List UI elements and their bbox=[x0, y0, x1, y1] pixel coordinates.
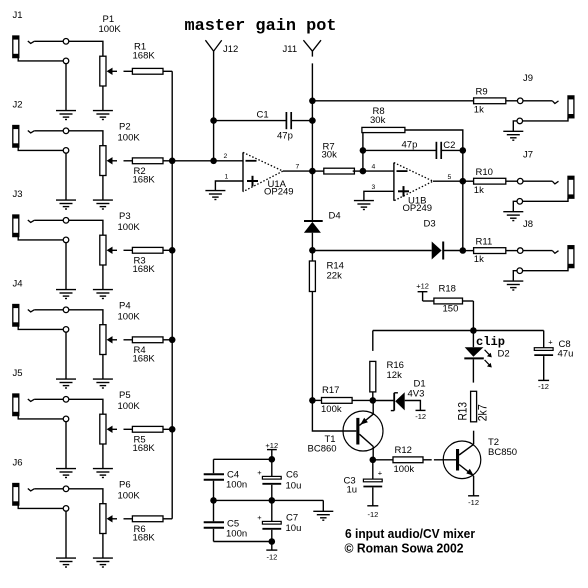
svg-text:100K: 100K bbox=[118, 133, 141, 144]
svg-text:7: 7 bbox=[296, 164, 300, 171]
svg-text:© Roman Sowa 2002: © Roman Sowa 2002 bbox=[345, 540, 464, 555]
junction bbox=[169, 337, 176, 344]
resistor R2 bbox=[124, 158, 173, 164]
junction bbox=[460, 147, 467, 154]
label J3 bbox=[13, 189, 23, 200]
wire to J9 bbox=[523, 101, 559, 104]
wire U1B +input to ground bbox=[364, 191, 394, 200]
svg-text:12k: 12k bbox=[387, 370, 403, 381]
diode D3 bbox=[432, 242, 463, 260]
wire J7 sleeve to ground bbox=[513, 201, 517, 211]
ground bbox=[503, 212, 523, 221]
svg-text:100n: 100n bbox=[226, 480, 247, 491]
contact circle J7 tip bbox=[517, 178, 523, 184]
connector J5 input jack bbox=[13, 394, 34, 416]
connector J3 input jack bbox=[13, 215, 34, 237]
svg-text:P4: P4 bbox=[119, 301, 131, 312]
power +12 bbox=[265, 441, 278, 459]
resistor R3 bbox=[124, 247, 173, 253]
junction bbox=[269, 497, 276, 504]
svg-text:+: + bbox=[257, 513, 262, 522]
caption line 2 bbox=[345, 540, 464, 555]
contact circle J1 sleeve bbox=[63, 58, 69, 64]
label C4 100n bbox=[226, 470, 247, 491]
svg-text:BC860: BC860 bbox=[308, 444, 337, 455]
svg-text:J11: J11 bbox=[283, 44, 298, 55]
wire node to R10 bbox=[463, 180, 474, 182]
label R4 168K bbox=[133, 345, 156, 365]
svg-text:+: + bbox=[378, 468, 383, 477]
contact circle J3 tip bbox=[63, 218, 69, 224]
label P1 100K bbox=[99, 14, 122, 35]
ground bbox=[93, 290, 113, 299]
svg-text:6 input audio/CV mixer: 6 input audio/CV mixer bbox=[345, 526, 475, 541]
pin 4 bbox=[372, 164, 376, 171]
diode D1 bbox=[373, 392, 421, 410]
svg-text:168K: 168K bbox=[133, 264, 156, 275]
wire J1 tip to P1 bbox=[34, 41, 103, 56]
svg-text:-12: -12 bbox=[468, 498, 479, 507]
label R7 30k bbox=[322, 142, 338, 161]
svg-text:J8: J8 bbox=[523, 219, 533, 230]
label J4 bbox=[13, 279, 23, 290]
svg-text:D2: D2 bbox=[498, 349, 510, 360]
ground bbox=[93, 379, 113, 388]
label J9 bbox=[523, 73, 533, 84]
label D1 4V3 bbox=[408, 379, 426, 400]
junction bbox=[470, 327, 477, 334]
label U1A OP249 bbox=[264, 179, 294, 197]
svg-text:J1: J1 bbox=[13, 10, 23, 21]
ground bbox=[56, 469, 76, 478]
resistor R12 bbox=[373, 457, 456, 463]
wire node to R11 bbox=[463, 250, 474, 252]
svg-text:+12: +12 bbox=[265, 441, 278, 450]
label R5 168K bbox=[133, 434, 156, 454]
svg-text:47p: 47p bbox=[277, 131, 293, 142]
contact circle J2 sleeve bbox=[63, 148, 69, 154]
label T2 BC850 bbox=[488, 437, 517, 458]
label J11 bbox=[283, 44, 298, 55]
label R3 168K bbox=[133, 255, 156, 275]
svg-text:clip: clip bbox=[476, 336, 505, 349]
junction bbox=[210, 117, 217, 124]
contact circle J7 sleeve bbox=[517, 199, 523, 205]
power -12 bbox=[538, 380, 549, 391]
wire U1A +input to ground bbox=[215, 181, 243, 190]
junction bbox=[309, 247, 316, 254]
wire U1A output bbox=[283, 170, 313, 172]
label R1 168K bbox=[133, 42, 156, 62]
label 47p C2 bbox=[402, 139, 456, 151]
svg-text:1k: 1k bbox=[474, 104, 484, 115]
potentiometer P1 bbox=[100, 56, 117, 86]
potentiometer P5 bbox=[100, 414, 117, 444]
wire P4 to ground bbox=[102, 355, 104, 380]
svg-text:168K: 168K bbox=[133, 443, 156, 454]
label P4 100K bbox=[118, 301, 141, 323]
wire mid rail bbox=[214, 500, 324, 511]
junction bbox=[309, 98, 316, 105]
junction bbox=[360, 147, 367, 154]
contact circle J4 tip bbox=[63, 307, 69, 313]
svg-text:1u: 1u bbox=[347, 485, 358, 496]
op-amp U1A bbox=[243, 152, 283, 191]
svg-text:master gain pot: master gain pot bbox=[185, 17, 337, 36]
svg-text:4V3: 4V3 bbox=[408, 389, 425, 400]
ground bbox=[503, 131, 523, 140]
svg-text:P3: P3 bbox=[119, 211, 131, 222]
contact circle J9 sleeve bbox=[517, 118, 523, 124]
diode D4 bbox=[304, 221, 323, 250]
wire J12 to U1A input node bbox=[213, 51, 215, 161]
capacitor C3 bbox=[363, 460, 382, 506]
wire R14 node to T1 base bbox=[312, 400, 356, 431]
label C1 47p bbox=[257, 110, 293, 142]
label C7 10u bbox=[286, 513, 302, 534]
resistor R8 bbox=[362, 127, 463, 150]
junction bbox=[309, 397, 316, 404]
svg-text:100K: 100K bbox=[99, 24, 122, 35]
wire clip net bbox=[373, 330, 544, 332]
svg-text:3: 3 bbox=[372, 184, 376, 191]
wire U1B output bbox=[433, 180, 463, 182]
connector J11 bbox=[303, 40, 321, 51]
svg-text:100n: 100n bbox=[226, 529, 247, 540]
potentiometer P2 bbox=[100, 146, 117, 176]
contact circle J6 sleeve bbox=[63, 506, 69, 512]
LED D2 bbox=[464, 331, 492, 383]
wire P3 to ground bbox=[102, 265, 104, 290]
ground bbox=[56, 379, 76, 388]
contact circle J2 tip bbox=[63, 128, 69, 134]
svg-text:-12: -12 bbox=[415, 412, 426, 421]
ground bbox=[313, 511, 333, 520]
ground bbox=[503, 281, 523, 290]
junction bbox=[269, 538, 276, 545]
connector J9 output jack bbox=[523, 96, 574, 121]
svg-text:-12: -12 bbox=[266, 552, 277, 561]
wire J1 sleeve to ground bbox=[18, 58, 66, 111]
resistor R10 bbox=[474, 178, 518, 184]
junction bbox=[169, 158, 176, 165]
connector J12 bbox=[205, 40, 221, 51]
svg-text:J9: J9 bbox=[523, 73, 533, 84]
connector J6 input jack bbox=[13, 484, 34, 506]
pin 1 bbox=[225, 173, 229, 180]
wire P1 to ground bbox=[102, 86, 104, 111]
wire P6 to ground bbox=[102, 534, 104, 559]
power -12 bbox=[367, 506, 378, 519]
ground bbox=[354, 201, 374, 210]
label R2 168K bbox=[133, 166, 156, 186]
ground bbox=[205, 191, 225, 200]
junction bbox=[360, 168, 367, 175]
resistor R9 bbox=[474, 98, 518, 104]
label R18 150 bbox=[439, 284, 459, 315]
svg-text:J4: J4 bbox=[13, 279, 23, 290]
svg-text:R13: R13 bbox=[456, 402, 470, 421]
svg-text:10u: 10u bbox=[286, 523, 302, 534]
svg-text:1k: 1k bbox=[474, 254, 484, 265]
contact circle J5 tip bbox=[63, 397, 69, 403]
capacitor C6 bbox=[257, 459, 281, 500]
wire J6 sleeve to ground bbox=[18, 505, 66, 558]
ground bbox=[93, 469, 113, 478]
connector J7 output jack bbox=[523, 176, 574, 201]
contact circle J1 tip bbox=[63, 39, 69, 45]
resistor R17 bbox=[312, 398, 372, 404]
svg-text:168K: 168K bbox=[133, 50, 156, 61]
ground bbox=[56, 558, 76, 567]
power -12 bbox=[468, 496, 479, 507]
pin 2 bbox=[224, 153, 228, 160]
wire J5 sleeve to ground bbox=[18, 416, 66, 469]
svg-text:100k: 100k bbox=[321, 404, 342, 415]
svg-text:R12: R12 bbox=[395, 445, 412, 456]
label R9 1k bbox=[474, 87, 488, 116]
wire summing bus bbox=[171, 71, 173, 519]
pin 5 bbox=[448, 174, 452, 181]
wire J8 sleeve to ground bbox=[513, 271, 517, 281]
contact circle J6 tip bbox=[63, 486, 69, 492]
resistor R11 bbox=[474, 248, 518, 254]
potentiometer P6 bbox=[100, 504, 117, 534]
svg-text:P6: P6 bbox=[119, 480, 131, 491]
label P6 100K bbox=[118, 480, 141, 502]
junction bbox=[370, 457, 377, 464]
svg-text:J12: J12 bbox=[223, 44, 238, 55]
label P2 100K bbox=[118, 122, 141, 144]
label R14 22k bbox=[327, 261, 344, 282]
svg-text:R9: R9 bbox=[476, 87, 488, 98]
pin 7 bbox=[296, 164, 300, 171]
connector J2 input jack bbox=[13, 126, 34, 148]
wire +12 rail bbox=[214, 459, 272, 473]
svg-text:100k: 100k bbox=[394, 464, 415, 475]
wire J4 sleeve to ground bbox=[18, 326, 66, 379]
junction bbox=[309, 117, 316, 124]
label J7 bbox=[523, 150, 533, 161]
label R6 168K bbox=[133, 524, 156, 544]
svg-text:1: 1 bbox=[225, 173, 229, 180]
resistor R1 bbox=[124, 68, 173, 74]
junction bbox=[269, 456, 276, 463]
svg-text:10u: 10u bbox=[286, 481, 302, 492]
ground bbox=[56, 290, 76, 299]
junction bbox=[210, 497, 217, 504]
label J2 bbox=[13, 100, 23, 111]
label C5 100n bbox=[226, 518, 247, 539]
resistor R16 bbox=[370, 331, 376, 401]
resistor R7 bbox=[312, 168, 363, 174]
wire J2 sleeve to ground bbox=[18, 147, 66, 200]
ground bbox=[56, 111, 76, 120]
capacitor C2 bbox=[363, 142, 463, 159]
svg-text:1k: 1k bbox=[474, 185, 484, 196]
label R13 2k7 bbox=[456, 402, 490, 422]
label J6 bbox=[13, 458, 23, 469]
wire J6 tip to P6 bbox=[34, 489, 103, 504]
svg-text:100K: 100K bbox=[118, 222, 141, 233]
contact circle J5 sleeve bbox=[63, 416, 69, 422]
resistor R5 bbox=[124, 426, 173, 432]
connector J1 input jack bbox=[13, 36, 34, 58]
label J5 bbox=[13, 368, 23, 379]
resistor R6 bbox=[124, 516, 173, 522]
label C3 1u bbox=[344, 476, 358, 496]
svg-text:+: + bbox=[257, 468, 262, 477]
svg-text:-12: -12 bbox=[367, 510, 378, 519]
label D2 bbox=[498, 349, 510, 360]
wire J9 sleeve to ground bbox=[513, 121, 517, 131]
label U1B OP249 bbox=[403, 196, 433, 214]
ground bbox=[93, 111, 113, 120]
label D3 bbox=[424, 219, 436, 230]
contact circle J4 sleeve bbox=[63, 327, 69, 333]
label C8 47u bbox=[558, 339, 574, 360]
potentiometer P4 bbox=[100, 325, 117, 355]
label R17 100k bbox=[321, 385, 342, 415]
ground bbox=[93, 558, 113, 567]
wire J11 down to D4 bbox=[311, 51, 313, 221]
svg-text:C2: C2 bbox=[443, 140, 455, 151]
svg-text:22k: 22k bbox=[327, 270, 343, 281]
potentiometer P3 bbox=[100, 235, 117, 265]
svg-text:4: 4 bbox=[372, 164, 376, 171]
capacitor C4 bbox=[204, 474, 224, 500]
svg-text:R11: R11 bbox=[476, 236, 493, 247]
junction bbox=[460, 247, 467, 254]
capacitor C5 bbox=[204, 500, 224, 541]
wire J3 tip to P3 bbox=[34, 220, 103, 235]
wire U1A node to R9 bbox=[312, 100, 473, 102]
svg-text:47u: 47u bbox=[558, 349, 574, 360]
svg-text:J7: J7 bbox=[523, 150, 533, 161]
junction bbox=[210, 158, 217, 165]
wire J3 sleeve to ground bbox=[18, 237, 66, 290]
capacitor C8 bbox=[534, 331, 553, 381]
power -12 bbox=[266, 542, 277, 562]
label J8 bbox=[523, 219, 533, 230]
svg-text:P2: P2 bbox=[119, 122, 131, 133]
ground bbox=[93, 200, 113, 209]
transistor T2 bbox=[443, 441, 481, 496]
svg-text:100K: 100K bbox=[118, 401, 141, 412]
power -12 bbox=[415, 410, 426, 421]
svg-text:100K: 100K bbox=[118, 491, 141, 502]
contact circle J3 sleeve bbox=[63, 237, 69, 243]
svg-text:J3: J3 bbox=[13, 189, 23, 200]
ground bbox=[56, 200, 76, 209]
svg-text:30k: 30k bbox=[370, 115, 386, 126]
junction bbox=[370, 397, 377, 404]
wire U1B -input column bbox=[362, 150, 364, 171]
svg-text:47p: 47p bbox=[402, 139, 418, 150]
caption line 1 bbox=[345, 526, 475, 541]
svg-text:168K: 168K bbox=[133, 353, 156, 364]
resistor R18 bbox=[423, 298, 474, 330]
resistor R4 bbox=[124, 337, 173, 343]
svg-text:100K: 100K bbox=[118, 312, 141, 323]
svg-text:5: 5 bbox=[448, 174, 452, 181]
svg-text:OP249: OP249 bbox=[403, 203, 433, 214]
label R16 12k bbox=[387, 360, 404, 381]
svg-text:J2: J2 bbox=[13, 100, 23, 111]
label C6 10u bbox=[286, 470, 302, 492]
svg-text:R17: R17 bbox=[322, 385, 339, 396]
wire R7 to U1B -input bbox=[363, 170, 394, 172]
svg-text:D3: D3 bbox=[424, 219, 436, 230]
resistor R14 bbox=[309, 250, 315, 400]
power +12 bbox=[416, 281, 429, 301]
junction bbox=[309, 168, 316, 175]
svg-text:-12: -12 bbox=[538, 382, 549, 391]
junction bbox=[169, 426, 176, 433]
wire J4 tip to P4 bbox=[34, 310, 103, 325]
contact circle J8 tip bbox=[517, 248, 523, 254]
svg-text:168K: 168K bbox=[133, 174, 156, 185]
svg-text:168K: 168K bbox=[133, 532, 156, 543]
svg-text:150: 150 bbox=[443, 304, 459, 315]
wire U1B feedback column bbox=[462, 150, 464, 250]
svg-text:C6: C6 bbox=[286, 470, 298, 481]
connector J8 output jack bbox=[523, 246, 574, 271]
svg-text:J5: J5 bbox=[13, 368, 23, 379]
label R10 1k bbox=[474, 167, 493, 196]
svg-text:BC850: BC850 bbox=[488, 447, 517, 458]
transistor T1 bbox=[343, 400, 383, 459]
svg-text:OP249: OP249 bbox=[264, 186, 294, 197]
capacitor C7 bbox=[257, 500, 281, 541]
contact circle J9 tip bbox=[517, 98, 523, 104]
svg-text:+12: +12 bbox=[416, 281, 429, 290]
junction bbox=[460, 178, 467, 185]
resistor R13 bbox=[471, 391, 477, 444]
label J1 bbox=[13, 10, 23, 21]
capacitor C1 bbox=[214, 112, 313, 129]
title master gain pot bbox=[185, 17, 337, 36]
svg-text:J6: J6 bbox=[13, 458, 23, 469]
svg-text:+: + bbox=[548, 337, 553, 346]
wire J5 tip to P5 bbox=[34, 399, 103, 414]
wire P2 to ground bbox=[102, 176, 104, 201]
wire bus to U1A -input bbox=[172, 160, 243, 162]
svg-text:P5: P5 bbox=[119, 390, 131, 401]
label P5 100K bbox=[118, 390, 141, 412]
label R11 1k bbox=[474, 236, 492, 265]
label T1 BC860 bbox=[308, 434, 337, 455]
wire to J8 bbox=[523, 251, 559, 254]
connector J4 input jack bbox=[13, 305, 34, 327]
label R12 100k bbox=[394, 445, 415, 475]
svg-text:R10: R10 bbox=[476, 167, 493, 178]
wire to J7 bbox=[523, 181, 559, 184]
svg-text:30k: 30k bbox=[322, 150, 338, 161]
wire P5 to ground bbox=[102, 444, 104, 469]
svg-text:R18: R18 bbox=[439, 284, 456, 295]
svg-text:2: 2 bbox=[224, 153, 228, 160]
label D4 bbox=[329, 211, 341, 222]
label P3 100K bbox=[118, 211, 141, 233]
op-amp U1B bbox=[394, 163, 433, 201]
label clip bbox=[476, 336, 505, 349]
label R8 30k bbox=[370, 106, 386, 126]
svg-text:2k7: 2k7 bbox=[476, 404, 490, 421]
wire J2 tip to P2 bbox=[34, 131, 103, 146]
junction bbox=[169, 247, 176, 254]
label J12 bbox=[223, 44, 238, 55]
